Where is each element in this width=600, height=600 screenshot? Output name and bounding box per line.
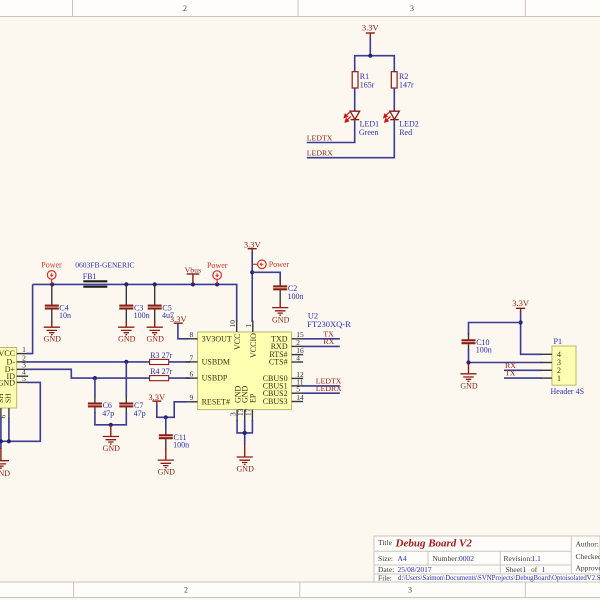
wire LED2 to LEDRX	[307, 120, 395, 158]
svg-text:LEDRX: LEDRX	[307, 149, 333, 158]
svg-text:0603FB-GENERIC: 0603FB-GENERIC	[75, 261, 134, 270]
junction 3.3V/C10	[519, 320, 523, 324]
wire 3.3V to LED resistors	[355, 37, 395, 72]
net D- wire	[27, 361, 151, 363]
power port 3.3V (header)	[512, 298, 530, 312]
pin 6 USBDP	[186, 370, 198, 379]
pin 15 TXD	[292, 330, 304, 339]
svg-text:GND: GND	[237, 465, 255, 474]
title block	[374, 536, 600, 582]
connector P1 Header 4S	[551, 337, 585, 396]
junction 3.3V/C2	[250, 270, 254, 274]
junction shield right	[7, 439, 11, 443]
svg-text:Size:: Size:	[378, 554, 393, 563]
svg-text:Approve: Approve	[576, 564, 600, 573]
junction C5	[153, 282, 157, 286]
wire C10 to header pin 3	[469, 349, 542, 363]
svg-text:6: 6	[190, 370, 194, 379]
pin 1 VCC	[17, 345, 29, 354]
pin 5 CBUS2	[292, 385, 304, 394]
wire LEDTX (CBUS1)	[302, 377, 342, 386]
pin 17 EP	[244, 408, 253, 421]
ground GND (C3)	[118, 321, 136, 344]
svg-text:P1: P1	[554, 337, 562, 346]
junction C6/D+	[93, 376, 97, 380]
resistor R3 27r	[150, 351, 173, 365]
pin 6 SH shield	[0, 408, 9, 419]
junction Vbus	[191, 282, 195, 286]
power port 3.3V (3V3OUT pin 8)	[170, 314, 188, 324]
pin 4 ID	[17, 368, 29, 377]
svg-text:GND: GND	[272, 315, 290, 324]
svg-text:25/08/2017: 25/08/2017	[398, 565, 432, 574]
resistor R4 27r	[150, 367, 173, 381]
svg-text:100n: 100n	[134, 311, 150, 320]
svg-text:10: 10	[228, 320, 237, 328]
svg-text:USBDP: USBDP	[202, 374, 228, 383]
IC U2 FT230XQ-R body	[198, 311, 351, 410]
svg-text:1.1: 1.1	[532, 554, 542, 563]
svg-text:27r: 27r	[162, 351, 173, 360]
svg-text:Debug Board V2: Debug Board V2	[395, 538, 473, 550]
junction C4/Power	[50, 282, 54, 286]
capacitor C10 100n	[462, 334, 492, 355]
ground GND (C4)	[44, 321, 62, 344]
svg-text:Power: Power	[41, 261, 62, 270]
svg-text:R4: R4	[150, 367, 159, 376]
svg-text:5: 5	[22, 374, 26, 383]
pin 2 (P1)	[541, 369, 553, 371]
svg-text:Checked: Checked	[576, 552, 600, 561]
svg-text:9: 9	[190, 393, 194, 402]
svg-text:FT230XQ-R: FT230XQ-R	[307, 319, 351, 329]
junction C3	[124, 282, 128, 286]
wire 3.3V down to VCCIO	[251, 252, 253, 322]
svg-text:GND: GND	[0, 469, 10, 478]
capacitor C5 4u7	[148, 284, 174, 322]
ground GND (C6/C7)	[103, 425, 121, 453]
svg-text:LEDTX: LEDTX	[307, 133, 333, 142]
svg-text:Revision:: Revision:	[504, 554, 533, 563]
svg-text:14: 14	[296, 393, 304, 402]
svg-text:TX: TX	[505, 369, 516, 378]
svg-text:USBDM: USBDM	[202, 358, 230, 367]
capacitor C3 100n	[119, 284, 149, 322]
svg-text:CTS#: CTS#	[269, 358, 288, 367]
pin 3 D+	[17, 361, 29, 370]
pin 13 GND	[236, 408, 245, 421]
junction LED rail	[368, 54, 372, 58]
svg-text:LEDRX: LEDRX	[316, 384, 342, 393]
svg-text:6: 6	[0, 415, 8, 419]
svg-text:7: 7	[190, 353, 194, 362]
junction C10/GND	[466, 360, 470, 364]
svg-text:Power: Power	[269, 260, 290, 269]
wire TX to header pin 1	[504, 369, 542, 378]
svg-text:GND: GND	[0, 379, 15, 388]
LED D1 LED1 Green	[344, 111, 379, 137]
svg-text:1: 1	[523, 565, 527, 574]
svg-text:Green: Green	[359, 128, 379, 137]
junction C11	[164, 415, 168, 419]
svg-text:100n: 100n	[288, 292, 304, 301]
svg-text:100n: 100n	[476, 346, 492, 355]
svg-text:Vbus: Vbus	[185, 265, 201, 274]
net D+ wire	[27, 369, 151, 378]
pin 9 RESET#	[186, 393, 198, 402]
svg-text:2: 2	[183, 4, 187, 13]
svg-text:EP: EP	[248, 393, 257, 403]
power port 3.3V (RESET)	[148, 392, 166, 405]
pin 2 D-	[17, 353, 29, 362]
svg-text:1: 1	[557, 374, 561, 383]
svg-text:GND: GND	[118, 335, 136, 344]
wire 3.3V to header pin 4	[521, 311, 542, 354]
wire R3 to USBDM	[169, 361, 190, 363]
svg-text:3.3V: 3.3V	[148, 392, 166, 402]
svg-text:GND: GND	[460, 381, 478, 390]
svg-text:47p: 47p	[134, 409, 146, 418]
resistor R2	[391, 72, 414, 90]
wire LED1 to LEDTX	[307, 120, 355, 142]
wire R2 to LED2	[393, 88, 395, 111]
wire VCC power rail	[33, 284, 237, 322]
svg-text:8: 8	[190, 330, 194, 339]
pin 3 (P1)	[541, 362, 553, 364]
ground GND (C5)	[147, 321, 165, 344]
wire 3.3V to pin 8	[178, 323, 188, 339]
svg-text:VCC: VCC	[233, 334, 242, 350]
wire C10 branch	[469, 323, 521, 335]
svg-text:1: 1	[244, 324, 253, 328]
junction C6/C7 ground	[109, 423, 113, 427]
svg-text:Sheet: Sheet	[506, 565, 524, 574]
pin 1 (P1)	[541, 377, 553, 379]
svg-text:100n: 100n	[173, 441, 189, 450]
ferrite bead FB1 0603FB-GENERIC	[75, 261, 134, 287]
power port Vbus	[185, 265, 201, 284]
svg-text:R3: R3	[150, 351, 159, 360]
svg-text:A4: A4	[398, 554, 407, 563]
LED D2 LED2 Red	[384, 111, 419, 137]
pin 8 3V3OUT	[186, 330, 198, 339]
ground GND (C11)	[158, 448, 176, 477]
wire RX	[302, 337, 340, 346]
svg-text:of: of	[531, 565, 538, 574]
pin 2 RXD	[292, 338, 304, 347]
ground GND (C10)	[460, 363, 478, 391]
svg-text:Header 4S: Header 4S	[551, 387, 585, 396]
svg-text:File:: File:	[378, 573, 392, 582]
svg-text:RX: RX	[323, 337, 334, 346]
wire RESET net	[157, 402, 187, 418]
pin 10 VCC	[228, 320, 237, 332]
capacitor C2 100n	[273, 280, 303, 303]
svg-text:3V3OUT: 3V3OUT	[202, 334, 232, 343]
wire RX to header pin 2	[504, 361, 542, 370]
pin 14 CBUS3	[292, 393, 304, 402]
wire LEDRX (CBUS2)	[302, 384, 342, 393]
svg-text:SH: SH	[4, 393, 13, 403]
svg-text:GND: GND	[147, 335, 165, 344]
svg-text:3: 3	[408, 586, 412, 595]
svg-text:3.3V: 3.3V	[362, 23, 380, 33]
ground GND (U2)	[237, 444, 255, 474]
svg-text:3: 3	[410, 4, 414, 13]
wire USB GND/shield	[0, 382, 40, 449]
svg-text:27r: 27r	[162, 367, 173, 376]
wire TX	[302, 329, 340, 338]
capacitor C7 47p	[119, 362, 145, 418]
wire C6/C7 to ground	[95, 412, 126, 425]
junction chip GND	[243, 431, 247, 435]
svg-text:10n: 10n	[59, 311, 71, 320]
svg-text:Title: Title	[378, 538, 393, 547]
svg-text:Red: Red	[399, 128, 412, 137]
capacitor C11 100n	[159, 417, 189, 449]
ground GND (C2)	[272, 302, 290, 325]
svg-text:165r: 165r	[360, 81, 375, 90]
power port Power (middle)	[207, 261, 228, 284]
wire R4 to USBDP	[169, 377, 190, 379]
capacitor C6 47p	[88, 378, 114, 418]
svg-text:Number:: Number:	[433, 554, 460, 563]
ground GND (USB, cut at edge)	[0, 448, 10, 478]
pin 7 USBDM	[186, 353, 198, 362]
svg-text:0002: 0002	[459, 554, 474, 563]
pin 16 RTS#	[292, 346, 304, 355]
svg-text:VCCIO: VCCIO	[249, 333, 258, 358]
junction C7/D-	[124, 360, 128, 364]
svg-text:GND: GND	[44, 335, 62, 344]
pin 4 CTS#	[292, 353, 304, 362]
svg-text:FB1: FB1	[83, 272, 97, 281]
connector J1 USB (cut at left edge)	[0, 348, 17, 409]
junction shield left	[0, 439, 3, 443]
resistor R1	[352, 72, 375, 90]
power port Power (left)	[41, 261, 62, 285]
svg-text:4: 4	[296, 353, 300, 362]
pin 4 (P1)	[541, 353, 553, 355]
power port 3.3V (LED rail)	[362, 23, 380, 39]
pin 3 GND	[228, 410, 237, 421]
svg-text:47p: 47p	[102, 409, 114, 418]
pin 5 GND	[17, 374, 29, 383]
svg-text:RESET#: RESET#	[202, 397, 230, 406]
svg-text:17: 17	[244, 408, 253, 416]
svg-text:Author:: Author:	[576, 540, 599, 549]
wire R1 to LED1	[354, 88, 356, 111]
svg-text:d:\Users\Saimon\Documents\SVNP: d:\Users\Saimon\Documents\SVNProjects\De…	[398, 575, 600, 582]
svg-text:147r: 147r	[399, 81, 414, 90]
wire C2 branch	[252, 272, 280, 281]
svg-text:CBUS3: CBUS3	[263, 397, 288, 406]
svg-text:Power: Power	[207, 261, 228, 270]
power port Power (right, sideways)	[253, 260, 290, 269]
wire chip GND bus	[237, 420, 252, 433]
pin 11 CBUS1	[292, 377, 304, 386]
pin 1 VCCIO	[244, 321, 253, 333]
svg-text:3.3V: 3.3V	[512, 298, 530, 308]
pin 12 CBUS0	[292, 370, 304, 379]
junction Power2	[215, 282, 219, 286]
svg-text:GND: GND	[158, 468, 176, 477]
svg-text:GND: GND	[103, 444, 121, 453]
svg-text:2: 2	[184, 586, 188, 595]
power port 3.3V (VCCIO rail)	[244, 240, 262, 253]
wire VCC riser to rail	[27, 284, 33, 353]
svg-text:1: 1	[542, 565, 546, 574]
capacitor C4 10n	[45, 284, 71, 322]
